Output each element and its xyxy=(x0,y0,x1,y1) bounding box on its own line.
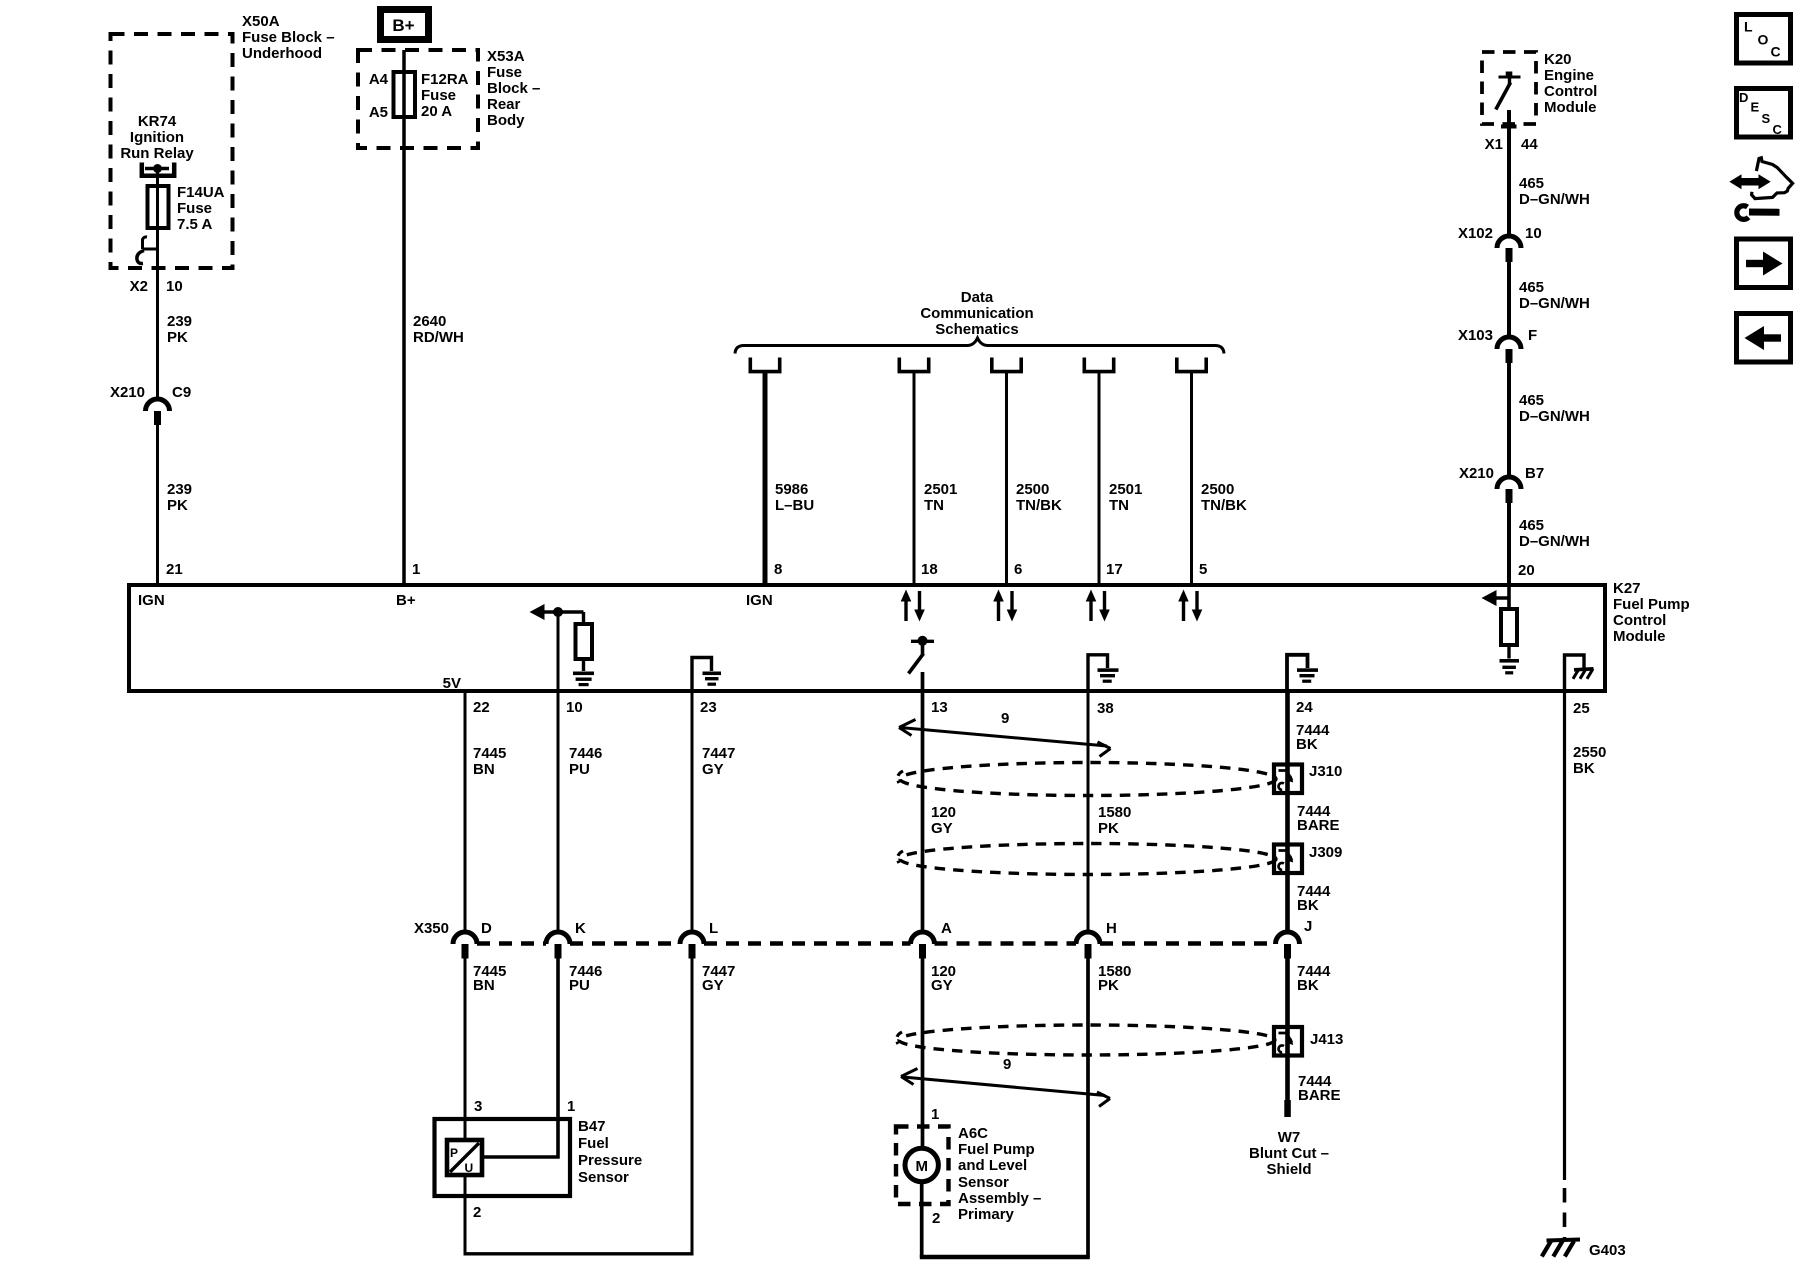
svg-text:D: D xyxy=(1739,90,1748,105)
svg-text:P: P xyxy=(450,1146,458,1160)
icon service info (vehicle head, double arrow, wrench) xyxy=(1729,158,1792,220)
wire label 2501 TN (b) xyxy=(1109,481,1142,514)
pressure sensor P/U element xyxy=(447,1140,482,1175)
svg-text:1580: 1580 xyxy=(1098,804,1131,821)
svg-text:BK: BK xyxy=(1297,977,1319,994)
wire 2550 BK xyxy=(1563,691,1566,1180)
svg-text:2: 2 xyxy=(473,1204,481,1221)
wire 7445 BN lower xyxy=(464,959,467,1141)
wire pin 10 internal xyxy=(557,612,560,691)
connector X350 pin J xyxy=(1276,918,1313,959)
connector label X1 pin 44 xyxy=(1485,136,1539,153)
fuel pump control module K27 (box) xyxy=(129,585,1605,691)
wire label 465 D-GN/WH (2) xyxy=(1519,279,1590,312)
svg-text:23: 23 xyxy=(700,699,717,716)
svg-text:44: 44 xyxy=(1521,136,1538,153)
svg-text:7.5 A: 7.5 A xyxy=(177,216,212,233)
svg-text:Body: Body xyxy=(487,112,525,129)
svg-text:BARE: BARE xyxy=(1297,817,1340,834)
wire 7444 BARE below J413 xyxy=(1285,1056,1290,1103)
shield ellipse (drain to J413) xyxy=(897,1025,1275,1055)
svg-text:X210: X210 xyxy=(1459,465,1494,482)
wire label 239 PK (lower) xyxy=(167,481,192,514)
svg-text:W7: W7 xyxy=(1278,1129,1301,1146)
bidirectional arrows pin 6 xyxy=(993,590,1017,622)
connector X210 B7 symbol xyxy=(1497,477,1521,503)
svg-text:6: 6 xyxy=(1014,561,1022,578)
wire 2501 TN (pin 17) xyxy=(1098,372,1101,583)
label A6C Fuel Pump and Level Sensor Assembly - Primary xyxy=(958,1125,1041,1223)
wire label 120 GY (lower) xyxy=(931,963,956,994)
svg-text:and Level: and Level xyxy=(958,1157,1027,1174)
svg-text:J413: J413 xyxy=(1310,1031,1343,1048)
internal ground hook at pin 38 xyxy=(1088,655,1119,691)
svg-text:22: 22 xyxy=(473,699,490,716)
label F14UA Fuse 7.5 A xyxy=(177,184,225,233)
wire 7444 BK above J310 xyxy=(1285,691,1290,794)
wire label 2501 TN (a) xyxy=(924,481,957,514)
svg-text:C9: C9 xyxy=(172,384,191,401)
switch contact inside K20 xyxy=(1496,72,1521,110)
svg-text:Sensor: Sensor xyxy=(578,1169,629,1186)
svg-text:2500: 2500 xyxy=(1016,481,1049,498)
svg-text:BK: BK xyxy=(1297,897,1319,914)
wire label 465 D-GN/WH (3) xyxy=(1519,392,1590,425)
svg-text:B+: B+ xyxy=(396,592,416,609)
svg-text:O: O xyxy=(1758,32,1769,48)
svg-text:U: U xyxy=(465,1161,474,1175)
svg-text:Fuse: Fuse xyxy=(487,64,522,81)
svg-text:2500: 2500 xyxy=(1201,481,1234,498)
wire A6C pin 2 xyxy=(920,1182,924,1257)
svg-text:IGN: IGN xyxy=(746,592,773,609)
terminal U (net 2501 b) xyxy=(1084,358,1113,372)
svg-text:H: H xyxy=(1106,920,1117,937)
svg-text:J: J xyxy=(1304,918,1312,935)
twisted pair symbol 9 (upper) xyxy=(899,710,1111,757)
twisted pair symbol 9 (lower) xyxy=(901,1056,1110,1107)
svg-text:BK: BK xyxy=(1573,760,1595,777)
wire 7444 BARE between J310 and J309 xyxy=(1285,793,1290,874)
svg-text:Control: Control xyxy=(1613,612,1666,629)
svg-text:C: C xyxy=(1771,44,1781,60)
svg-text:Fuel: Fuel xyxy=(578,1135,609,1152)
svg-text:S: S xyxy=(1762,111,1771,126)
svg-text:C: C xyxy=(1773,122,1783,137)
svg-text:465: 465 xyxy=(1519,392,1544,409)
svg-text:A: A xyxy=(941,920,952,937)
wire 2500 TN/BK (pin 5) xyxy=(1190,372,1193,583)
svg-text:20 A: 20 A xyxy=(421,103,452,120)
svg-text:7446: 7446 xyxy=(569,745,602,762)
svg-text:Engine: Engine xyxy=(1544,67,1594,84)
svg-text:Shield: Shield xyxy=(1266,1161,1311,1178)
svg-text:PK: PK xyxy=(167,497,188,514)
svg-text:BK: BK xyxy=(1296,736,1318,753)
svg-text:Ignition: Ignition xyxy=(130,129,184,146)
wire label 7445 BN (lower) xyxy=(473,963,506,994)
svg-text:13: 13 xyxy=(931,699,948,716)
wire label 7444 BK (below X350 J) xyxy=(1297,963,1331,994)
svg-text:KR74: KR74 xyxy=(138,113,177,130)
svg-text:D–GN/WH: D–GN/WH xyxy=(1519,295,1590,312)
svg-text:D–GN/WH: D–GN/WH xyxy=(1519,191,1590,208)
svg-text:17: 17 xyxy=(1106,561,1123,578)
svg-text:GY: GY xyxy=(931,820,953,837)
connector X350 pin H xyxy=(1076,920,1117,959)
svg-text:J309: J309 xyxy=(1309,844,1342,861)
wire 7444 BK below X350 J xyxy=(1285,959,1290,1057)
wire label 2500 TN/BK (b) xyxy=(1201,481,1247,514)
connector X210 pin B7 label xyxy=(1459,465,1544,482)
svg-text:K: K xyxy=(575,920,586,937)
svg-text:D: D xyxy=(481,920,492,937)
svg-text:239: 239 xyxy=(167,313,192,330)
svg-text:B+: B+ xyxy=(392,16,414,35)
connector X350 pin A xyxy=(911,920,953,959)
svg-text:PU: PU xyxy=(569,761,590,778)
relay KR74 contact bracket xyxy=(142,163,174,176)
svg-text:21: 21 xyxy=(166,561,183,578)
svg-text:Underhood: Underhood xyxy=(242,45,322,62)
svg-text:X350: X350 xyxy=(414,920,449,937)
wire label 2550 BK xyxy=(1573,744,1606,777)
svg-text:X103: X103 xyxy=(1458,327,1493,344)
wire 7446 PU lower xyxy=(556,959,560,1159)
svg-text:GY: GY xyxy=(702,977,724,994)
ground G403 xyxy=(1542,1240,1626,1260)
svg-text:GY: GY xyxy=(702,761,724,778)
wire label 7445 BN (upper) xyxy=(473,745,506,778)
svg-text:F: F xyxy=(1528,327,1537,344)
pin tick at K20 exit xyxy=(1501,125,1517,129)
wire label 7444 BARE (upper) xyxy=(1297,803,1340,834)
label K27 Fuel Pump Control Module xyxy=(1613,580,1690,645)
motor M symbol xyxy=(905,1148,938,1181)
internal 5V pull-up arrow at pin 10 xyxy=(530,604,584,620)
wire label 7444 BARE (lower) xyxy=(1298,1073,1341,1104)
svg-text:1: 1 xyxy=(567,1098,575,1115)
svg-text:BARE: BARE xyxy=(1298,1087,1341,1104)
svg-text:Control: Control xyxy=(1544,83,1597,100)
fuse block X53A (dashed outline) xyxy=(358,50,478,148)
svg-text:A6C: A6C xyxy=(958,1125,988,1142)
wire 2500 TN/BK (pin 6) xyxy=(1005,372,1008,583)
svg-text:1: 1 xyxy=(412,561,420,578)
internal arrow at pin 20 xyxy=(1482,590,1511,606)
internal ground hook at pin 24 xyxy=(1287,655,1318,691)
svg-text:Pressure: Pressure xyxy=(578,1152,642,1169)
wire 465 D-GN/WH segment 3 xyxy=(1507,363,1511,477)
svg-text:PK: PK xyxy=(167,329,188,346)
wire 5986 L-BU xyxy=(763,372,768,583)
connector X103 symbol xyxy=(1497,337,1521,363)
wire 465 D-GN/WH segment 2 xyxy=(1507,262,1511,337)
wire 239 PK lower segment xyxy=(156,425,159,583)
svg-text:B7: B7 xyxy=(1525,465,1544,482)
svg-text:E: E xyxy=(1751,100,1760,115)
wire label 7447 GY (lower) xyxy=(702,963,735,994)
svg-text:Sensor: Sensor xyxy=(958,1174,1009,1191)
splice J309 xyxy=(1274,845,1302,874)
svg-text:Fuse: Fuse xyxy=(421,87,456,104)
svg-text:24: 24 xyxy=(1296,699,1313,716)
connector label X2 pin 10 xyxy=(130,278,183,295)
svg-text:BN: BN xyxy=(473,761,495,778)
svg-text:465: 465 xyxy=(1519,517,1544,534)
connector X102 symbol xyxy=(1497,236,1521,262)
svg-text:TN/BK: TN/BK xyxy=(1016,497,1062,514)
fuse F12RA xyxy=(394,72,416,117)
svg-text:20: 20 xyxy=(1518,562,1535,579)
terminal U (net 2501 a) xyxy=(899,358,928,372)
svg-text:PK: PK xyxy=(1098,820,1119,837)
wire 7447 GY lower xyxy=(691,959,694,1254)
svg-text:Blunt Cut –: Blunt Cut – xyxy=(1249,1145,1329,1162)
svg-text:2640: 2640 xyxy=(413,313,446,330)
svg-text:B47: B47 xyxy=(578,1118,606,1135)
wire label 2500 TN/BK (a) xyxy=(1016,481,1062,514)
blunt cut W7 stub xyxy=(1284,1100,1291,1117)
shield ellipse (drain to J310) xyxy=(898,763,1276,796)
wire 2640 RD/WH xyxy=(402,50,406,583)
wire label 7444 BK (above X350 J) xyxy=(1297,883,1331,914)
connector X102 pin 10 label xyxy=(1458,225,1542,242)
wire 465 D-GN/WH segment 1 xyxy=(1507,110,1511,236)
svg-text:A4: A4 xyxy=(369,71,389,88)
ground symbol under pin-10 resistor xyxy=(573,672,594,687)
wire 120 GY lower xyxy=(921,959,925,1149)
label KR74 Ignition Run Relay xyxy=(120,113,194,162)
svg-text:A5: A5 xyxy=(369,104,388,121)
wire label 465 D-GN/WH (1) xyxy=(1519,175,1590,208)
svg-text:Communication: Communication xyxy=(920,305,1033,322)
svg-text:120: 120 xyxy=(931,804,956,821)
internal resistor at pin 10 xyxy=(576,612,593,671)
svg-text:Rear: Rear xyxy=(487,96,521,113)
connector X210 C9 symbol xyxy=(146,399,170,425)
wire 7446 PU upper xyxy=(557,691,560,932)
wire 1580 PK lower xyxy=(1086,959,1090,1258)
svg-text:1: 1 xyxy=(931,1106,939,1123)
svg-text:PK: PK xyxy=(1098,977,1119,994)
svg-text:K20: K20 xyxy=(1544,51,1572,68)
svg-text:38: 38 xyxy=(1097,700,1114,717)
fuse block X50A (dashed outline) xyxy=(111,34,233,268)
svg-text:TN: TN xyxy=(1109,497,1129,514)
svg-text:2501: 2501 xyxy=(1109,481,1142,498)
ground symbol under pin-20 resistor xyxy=(1500,659,1520,674)
wire label 7447 GY (upper) xyxy=(702,745,735,778)
svg-text:L: L xyxy=(709,920,718,937)
wire label 1580 PK (upper) xyxy=(1098,804,1131,837)
label B47 Fuel Pressure Sensor xyxy=(578,1118,642,1186)
wire label 7446 PU (lower) xyxy=(569,963,602,994)
wire 2501 TN (pin 18) xyxy=(913,372,916,583)
internal resistor at pin 20 xyxy=(1501,585,1517,659)
svg-text:2501: 2501 xyxy=(924,481,957,498)
svg-text:D–GN/WH: D–GN/WH xyxy=(1519,408,1590,425)
svg-text:J310: J310 xyxy=(1309,763,1342,780)
B+ terminal box xyxy=(381,10,429,40)
wire label 1580 PK (lower) xyxy=(1098,963,1131,994)
svg-text:BN: BN xyxy=(473,977,495,994)
wire label 465 D-GN/WH (4) xyxy=(1519,517,1590,550)
wire label 239 PK xyxy=(167,313,192,346)
internal chassis-ground hook at pin 25 xyxy=(1565,655,1594,691)
svg-text:X53A: X53A xyxy=(487,48,525,65)
svg-text:X102: X102 xyxy=(1458,225,1493,242)
fuse F14UA xyxy=(148,186,169,228)
svg-text:Block –: Block – xyxy=(487,80,540,97)
switch driver symbol at pin 13 xyxy=(909,636,935,691)
label W7 Blunt Cut - Shield xyxy=(1249,1129,1329,1178)
svg-text:M: M xyxy=(915,1158,928,1175)
icon next (right arrow) button xyxy=(1737,239,1791,288)
wire 239 PK upper segment xyxy=(156,169,159,400)
link P/U element to pin 1 wire xyxy=(482,1155,560,1159)
splice J413 xyxy=(1274,1027,1302,1056)
wire B47 pin 2 xyxy=(464,1175,467,1254)
svg-text:Fuse Block –: Fuse Block – xyxy=(242,29,335,46)
svg-text:D–GN/WH: D–GN/WH xyxy=(1519,533,1590,550)
internal ground hook at pin 23 xyxy=(692,658,721,692)
svg-text:G403: G403 xyxy=(1589,1242,1626,1259)
splice J310 xyxy=(1274,765,1302,794)
bidirectional arrows pin 18 xyxy=(901,590,925,622)
svg-text:25: 25 xyxy=(1573,700,1590,717)
svg-text:L: L xyxy=(1744,19,1753,35)
wire label 2640 RD/WH xyxy=(413,313,464,346)
svg-text:Run Relay: Run Relay xyxy=(120,145,194,162)
connector X350 pin K xyxy=(546,920,586,959)
icon back (left arrow) button xyxy=(1737,314,1791,363)
svg-text:RD/WH: RD/WH xyxy=(413,329,464,346)
connector X103 pin F label xyxy=(1458,327,1537,344)
svg-text:9: 9 xyxy=(1001,710,1009,727)
label X50A Fuse Block - Underhood xyxy=(242,13,335,62)
svg-text:X50A: X50A xyxy=(242,13,280,30)
fuel pump A6C (dashed outline) xyxy=(896,1127,949,1205)
svg-text:Schematics: Schematics xyxy=(935,321,1018,338)
wire label 7446 PU (upper) xyxy=(569,745,602,778)
svg-text:K27: K27 xyxy=(1613,580,1641,597)
svg-text:5986: 5986 xyxy=(775,481,808,498)
icon LOC button xyxy=(1737,15,1791,64)
svg-text:PU: PU xyxy=(569,977,590,994)
svg-text:465: 465 xyxy=(1519,279,1544,296)
svg-text:Fuel Pump: Fuel Pump xyxy=(958,1141,1035,1158)
bidirectional arrows pin 5 xyxy=(1178,590,1202,622)
svg-text:3: 3 xyxy=(474,1098,482,1115)
engine control module K20 (dashed outline) xyxy=(1482,52,1536,124)
connector X210 C9 label xyxy=(110,384,191,401)
wire 465 D-GN/WH segment 4 xyxy=(1507,503,1511,583)
label Data Communication Schematics xyxy=(920,289,1033,338)
wire label 5986 L-BU xyxy=(775,481,814,514)
wire B47 return bottom run xyxy=(464,1252,694,1255)
svg-text:239: 239 xyxy=(167,481,192,498)
svg-text:F14UA: F14UA xyxy=(177,184,225,201)
wire 1580 PK upper xyxy=(1087,691,1090,932)
terminal U (net 2500 b) xyxy=(1177,358,1206,372)
svg-text:7447: 7447 xyxy=(702,745,735,762)
svg-text:TN: TN xyxy=(924,497,944,514)
svg-text:10: 10 xyxy=(166,278,183,295)
svg-text:Module: Module xyxy=(1544,99,1597,116)
svg-text:Assembly –: Assembly – xyxy=(958,1190,1041,1207)
svg-text:10: 10 xyxy=(1525,225,1542,242)
connector X350 pin L xyxy=(680,920,718,959)
svg-text:X2: X2 xyxy=(130,278,148,295)
svg-text:5V: 5V xyxy=(443,675,461,692)
wire 7444 BK between J309 and X350 xyxy=(1285,873,1290,932)
terminal U (net 2500 a) xyxy=(992,358,1021,372)
svg-text:10: 10 xyxy=(566,699,583,716)
fuse block internal connection hook xyxy=(137,237,158,264)
svg-text:Data: Data xyxy=(961,289,994,306)
wire 7445 BN upper xyxy=(464,691,467,932)
wire label 120 GY (upper) xyxy=(931,804,956,837)
svg-text:X210: X210 xyxy=(110,384,145,401)
wire 7447 GY upper xyxy=(691,691,694,932)
brace over data communication wires xyxy=(735,338,1224,354)
svg-text:F12RA: F12RA xyxy=(421,71,469,88)
label K20 Engine Control Module xyxy=(1544,51,1597,116)
svg-text:9: 9 xyxy=(1003,1056,1011,1073)
svg-text:8: 8 xyxy=(774,561,782,578)
connector X350 pin D xyxy=(453,920,492,959)
shield ellipse (drain to J309) xyxy=(898,844,1276,875)
wire 120 GY upper xyxy=(921,691,925,932)
label F12RA Fuse 20 A xyxy=(421,71,469,120)
svg-text:7445: 7445 xyxy=(473,745,506,762)
svg-text:Fuel Pump: Fuel Pump xyxy=(1613,596,1690,613)
svg-text:Primary: Primary xyxy=(958,1206,1015,1223)
terminal U (net 5986) xyxy=(750,358,779,372)
svg-text:GY: GY xyxy=(931,977,953,994)
wire A6C return bottom run xyxy=(920,1255,1090,1259)
svg-text:465: 465 xyxy=(1519,175,1544,192)
label X53A Fuse Block - Rear Body xyxy=(487,48,540,129)
svg-text:Module: Module xyxy=(1613,628,1666,645)
bidirectional arrows pin 17 xyxy=(1086,590,1110,622)
svg-text:IGN: IGN xyxy=(138,592,165,609)
svg-text:X1: X1 xyxy=(1485,136,1503,153)
svg-text:5: 5 xyxy=(1199,561,1207,578)
fuel pressure sensor B47 box xyxy=(435,1119,571,1196)
svg-text:18: 18 xyxy=(921,561,938,578)
svg-text:Fuse: Fuse xyxy=(177,200,212,217)
svg-text:TN/BK: TN/BK xyxy=(1201,497,1247,514)
X350 dashed link line xyxy=(477,941,1276,945)
wire label 7444 BK (above J310) xyxy=(1296,722,1330,753)
wire 2550 BK dashed tail xyxy=(1563,1188,1567,1238)
svg-text:2: 2 xyxy=(932,1210,940,1227)
icon DESC button xyxy=(1737,89,1791,138)
svg-text:2550: 2550 xyxy=(1573,744,1606,761)
svg-text:L–BU: L–BU xyxy=(775,497,814,514)
